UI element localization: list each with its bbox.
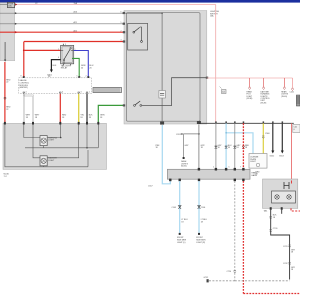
inline connector on red drop (4, 97, 6, 99)
svg-text:TAIL: TAIL (264, 210, 268, 213)
svg-text:LIGHT: LIGHT (48, 140, 55, 142)
connector stub B2 on pink line (263, 78, 265, 87)
svg-text:GRY: GRY (185, 145, 190, 147)
wire: pink feed from fuse box (0, 4, 17, 6)
svg-text:7-2: 7-2 (4, 176, 8, 178)
svg-text:6: 6 (62, 92, 63, 94)
bar pins bottom (169, 179, 171, 182)
lamp L1 (parking light) (40, 136, 47, 146)
svg-text:C730: C730 (273, 228, 278, 230)
svg-text:20: 20 (89, 67, 92, 69)
svg-text:4: 4 (58, 57, 59, 59)
wire: white branch to x33 (24, 96, 33, 124)
svg-text:C106: C106 (201, 207, 206, 209)
svg-text:1: 1 (75, 49, 76, 51)
wire: from S2 up to output y77.7 (142, 78, 207, 106)
connector label on pink crossing (220, 87, 222, 89)
fuse box (power distribution panel) (0, 3, 15, 61)
svg-text:G752: G752 (204, 277, 209, 279)
bus pin tabs (215, 121, 217, 123)
svg-text:18: 18 (26, 117, 29, 119)
junction connector bar (167, 169, 250, 179)
wire: black drop x87 (86, 94, 88, 124)
ground drop x272.8 / G552 (272, 123, 274, 151)
wire: gray output y13 (0, 12, 124, 14)
lamp L2 (side marker light) (40, 156, 47, 166)
svg-text:C2: C2 (35, 3, 37, 5)
relay ground path + ground G301 (51, 60, 60, 70)
connector stub B1 on pink line (249, 78, 251, 87)
wire: internal vertical x162 (161, 13, 163, 123)
wire: gray output y24 (0, 23, 128, 25)
connector strip C (hatched) (93, 88, 122, 93)
internal wire net (headlight box) (24, 125, 61, 138)
svg-text:(W-40): (W-40) (281, 96, 287, 98)
svg-text:3: 3 (121, 40, 122, 42)
wire: gray dashed drop x234.8 below bar (234, 181, 236, 281)
svg-text:1: 1 (89, 92, 90, 94)
wire: red dashed from taillight bottom right (291, 208, 300, 211)
BCM inner box (127, 13, 201, 122)
svg-text:5: 5 (121, 22, 122, 24)
pin: BCM bottom x162 (160, 122, 164, 125)
wire: red branch to taillight relay (24, 49, 61, 51)
wire: pink output y78 to rear (207, 77, 293, 79)
svg-text:A16: A16 (74, 10, 77, 13)
gauge module bottom pins (23, 92, 88, 94)
svg-text:6: 6 (121, 11, 122, 13)
ground drop x282.3 / G553 (281, 123, 283, 151)
svg-text:7: 7 (240, 166, 241, 168)
wire: red drop x60.3 (59, 94, 61, 124)
gauge control module (dashed box) (19, 78, 92, 94)
bulb B2 (287, 195, 291, 199)
svg-text:5: 5 (77, 75, 78, 77)
svg-text:(W-35): (W-35) (181, 166, 187, 168)
svg-text:8: 8 (21, 75, 22, 77)
wire: red drop from fuse box x4.9 (4, 62, 6, 124)
svg-text:18: 18 (245, 147, 247, 149)
wire: red vertical bus x24 (23, 42, 25, 78)
svg-text:C720: C720 (227, 271, 232, 273)
svg-text:C451: C451 (290, 92, 295, 94)
fuse F1 connector box (7, 2, 14, 7)
wire: yellow drop x263.3 to license light (262, 123, 264, 153)
svg-text:18: 18 (201, 147, 203, 149)
pin: BCM bottom x199 (197, 121, 201, 124)
svg-text:RELAY: RELAY (61, 67, 68, 70)
svg-text:LIGHT: LIGHT (48, 160, 55, 162)
wire: red drop to taillight x291.5 (291, 123, 293, 180)
svg-text:(W-38): (W-38) (247, 98, 253, 100)
svg-text:6: 6 (294, 129, 295, 131)
wire: gray dashed ground link y280.8 (208, 280, 290, 282)
headlight assembly box (lower left) (3, 123, 107, 169)
license plate light box (249, 154, 267, 169)
fuse F2 in BCM (159, 91, 165, 99)
svg-text:(METER): (METER) (19, 87, 28, 89)
svg-text:C201: C201 (176, 134, 181, 136)
svg-text:22: 22 (6, 82, 9, 84)
svg-text:18: 18 (80, 117, 83, 119)
connectors on ground drop x289.6 (288, 245, 290, 248)
wire: red feed R1 y32 (0, 31, 134, 33)
wire: yellow drop x78.7 (78, 94, 80, 124)
svg-text:2: 2 (213, 166, 214, 168)
svg-text:18: 18 (228, 147, 230, 149)
switch S2 (tail switch) (134, 105, 136, 107)
connector label box C416 (293, 125, 300, 133)
svg-text:18: 18 (291, 252, 293, 254)
svg-text:C741: C741 (283, 246, 288, 248)
svg-text:A21: A21 (74, 21, 77, 24)
svg-text:(W-39): (W-39) (261, 102, 267, 104)
lighting switch sub-box (128, 23, 148, 50)
top title bar (0, 0, 300, 3)
svg-text:G553: G553 (279, 156, 284, 158)
svg-text:G552: G552 (270, 156, 275, 158)
diode elements in taillight (284, 182, 289, 189)
wire: internal feed y13 (124, 12, 162, 14)
wire: dark bus y123.3 (199, 122, 294, 124)
svg-text:LIGHT (R): LIGHT (R) (196, 242, 205, 244)
svg-text:20: 20 (81, 67, 84, 69)
svg-text:2: 2 (121, 30, 122, 32)
svg-text:18: 18 (156, 147, 158, 149)
wire: pink vertical trunk x215.7 (215, 5, 217, 124)
wire: gray drop x234.8 (234, 123, 236, 169)
svg-text:18: 18 (89, 117, 92, 119)
wire: white drop x23.8 (23, 94, 25, 124)
taillight assembly box (263, 179, 298, 208)
wire: green to lighting switch in BCM (98, 105, 133, 123)
BCM / under-dash fuse-relay box (124, 11, 207, 125)
svg-text:18: 18 (62, 117, 65, 119)
connector stub B3 on pink line (283, 78, 285, 87)
svg-text:18: 18 (273, 217, 275, 219)
svg-text:2: 2 (58, 49, 59, 51)
wire: cyan marker drop x179.7 (179, 181, 181, 233)
bulbs sub-box (272, 191, 296, 203)
stub pin 2 on taillight (281, 207, 283, 210)
pin: BCM output right y77.7 (206, 77, 208, 79)
wire: cyan marker drop x199 (198, 181, 200, 233)
right edge connector (hatched) (296, 95, 300, 106)
bulb B1 (275, 195, 279, 199)
pins on BCM left edge (123, 12, 125, 14)
svg-text:18: 18 (218, 147, 220, 149)
svg-text:22: 22 (6, 109, 9, 111)
wire: red dashed trunk below bar (243, 181, 300, 294)
svg-text:A22: A22 (74, 29, 77, 32)
wire: cyan drop from BCM x162.3 (162, 125, 170, 184)
svg-text:5: 5 (229, 166, 230, 168)
wire: gray drop from BCM pin to junction bar (198, 125, 200, 170)
wire: cyan drop x226.1 + branch (225, 123, 227, 169)
svg-text:P6: P6 (48, 76, 50, 78)
taillight ground wire path (270, 207, 272, 210)
svg-text:18: 18 (256, 174, 258, 176)
svg-text:18: 18 (100, 117, 103, 119)
svg-text:18: 18 (201, 221, 203, 223)
svg-text:C557: C557 (148, 185, 153, 187)
wire: red feed R2 y41.5 (24, 41, 142, 43)
svg-text:18: 18 (181, 221, 183, 223)
switch S1 (light switch) (133, 31, 135, 33)
svg-text:2: 2 (86, 75, 87, 77)
svg-text:18: 18 (291, 269, 293, 271)
svg-text:C560: C560 (265, 133, 270, 135)
node: red pin into gauge module (23, 76, 25, 78)
bar pins top (198, 168, 200, 171)
wire: green from relay to gauge module (72, 58, 79, 77)
svg-text:C742: C742 (283, 263, 288, 265)
svg-text:18: 18 (236, 147, 238, 149)
svg-text:3: 3 (81, 92, 82, 94)
fuse box internal wire (4, 42, 6, 60)
svg-text:BLK: BLK (53, 65, 57, 67)
connector C451 end of pink line (292, 78, 294, 88)
svg-text:LIGHT: LIGHT (250, 161, 256, 163)
stub: branch to dash light connector (184, 134, 199, 157)
svg-text:4: 4 (26, 92, 27, 94)
svg-text:18: 18 (35, 117, 38, 119)
taillight relay K1 (61, 45, 74, 63)
wire: gray drop x215.9 (215, 123, 217, 169)
wire: red dashed drop x243.4 (242, 123, 244, 169)
svg-text:LIGHT (L): LIGHT (L) (177, 242, 186, 244)
pins on headlight box top (4, 122, 6, 125)
wire: blue from relay to gauge module (74, 51, 89, 78)
svg-text:3: 3 (65, 44, 66, 46)
svg-text:C105: C105 (172, 207, 177, 209)
